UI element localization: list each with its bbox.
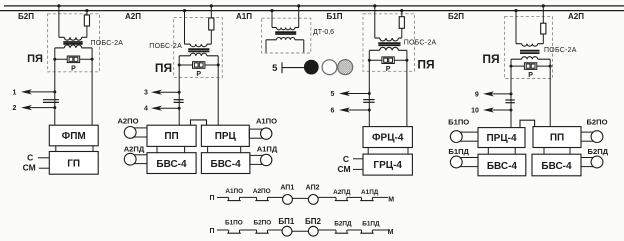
contact А2ПД (335, 197, 349, 200)
svg-text:М: М (388, 229, 394, 236)
wire stub ПРЦ-4-БВС left (487, 148, 489, 155)
block БВС-4 (under ПП) (147, 153, 196, 174)
svg-text:Р: Р (386, 66, 391, 73)
junction (group 5 P row right) (549, 65, 552, 68)
relay Р (group 2) connection wire (179, 64, 218, 66)
wire row Б seg 4 (292, 230, 309, 232)
transformer ПОБС-2А (group 2) primary winding (185, 43, 191, 45)
junction (group 5 P row left) (510, 65, 513, 68)
svg-text:С: С (27, 152, 33, 162)
svg-text:6: 6 (331, 107, 335, 114)
svg-text:АП2: АП2 (306, 184, 320, 191)
svg-text:ПРЦ: ПРЦ (215, 131, 237, 142)
terminal Б2ПО (581, 132, 597, 141)
wire arrow 5 tap (331, 91, 371, 98)
wire stub ПП-БВС right (184, 146, 186, 152)
svg-text:ПОБС-2А: ПОБС-2А (544, 47, 577, 54)
svg-text:Б2ПО: Б2ПО (586, 117, 607, 126)
svg-text:5: 5 (272, 63, 278, 74)
contact Б2ПО (255, 230, 268, 233)
block БВС-4 (under ПРЦ) (201, 153, 250, 174)
block БВС-4 (under ПРЦ-4) (478, 154, 526, 176)
junction on rail (group 5 resistor tap) (542, 4, 545, 7)
contact Б1ПО (227, 230, 241, 233)
junction (group 2 P row right) (217, 64, 220, 67)
svg-text:М: М (388, 197, 394, 204)
block ПРЦ (201, 125, 249, 146)
dashed enclosure ДТ box (262, 18, 311, 53)
svg-text:ПРЦ-4: ПРЦ-4 (486, 133, 516, 144)
wire stub ФПМ-ГП right (92, 146, 94, 152)
block ГП (49, 152, 98, 175)
svg-text:А2ПО: А2ПО (117, 116, 138, 125)
wire row А seg 2 (240, 196, 257, 198)
wire row А seg 1 (217, 196, 229, 198)
svg-text:Р: Р (528, 72, 533, 79)
svg-text:Б1ПО: Б1ПО (448, 117, 469, 126)
transformer ПОБС-2А (group 1) secondary winding (55, 47, 65, 49)
wire stub ПРЦ-БВС right (240, 146, 242, 152)
wire stub ФПМ-ГП left (55, 146, 57, 152)
resistor R2 (210, 6, 212, 18)
transformer ПОБС-2А (group 4) secondary winding (369, 49, 379, 51)
wire stub ПРЦ-4-БВС right (514, 148, 516, 155)
terminal А1ПО (249, 129, 266, 138)
relay Р (group 5) connection wire (511, 65, 550, 67)
junction on rail (group 1 left tap) (57, 4, 60, 7)
transformer ПОБС-2А (group 1) core (63, 41, 82, 43)
wire secondary left vertical (group 2) (178, 56, 180, 125)
wire arrow 10 tap (471, 107, 512, 114)
svg-text:5: 5 (331, 91, 335, 98)
wire row Б seg 1 (217, 229, 229, 231)
junction on rail (group 4 resistor tap) (400, 9, 403, 12)
signal mast (281, 62, 283, 73)
contact А1ПО (227, 197, 241, 200)
svg-text:А2П: А2П (125, 12, 141, 21)
relay coil АП1 (283, 195, 293, 205)
transformer ПОБС-2А (group 4) core (378, 42, 400, 44)
junction (group 4 P row right) (405, 59, 408, 62)
wire ДТ secondary left stub (265, 40, 267, 53)
wire row А seg 3 (268, 196, 284, 198)
svg-text:П: П (209, 195, 214, 202)
transformer ПОБС-2А (group 2) secondary winding (179, 55, 190, 57)
block ФРЦ-4 (363, 127, 412, 148)
wire rail tap left (group 2) (184, 11, 186, 45)
dashed enclosure ПЯ box (group 5) (505, 17, 553, 79)
transformer ДТ-0,6 main winding (272, 27, 277, 29)
dashed enclosure ПЯ box (group 2) (174, 18, 223, 78)
svg-text:А2П: А2П (568, 12, 584, 21)
wire secondary left vertical (group 1) (54, 48, 56, 126)
svg-text:Б2П: Б2П (448, 12, 464, 21)
capacitor on wire (group 5) (505, 100, 514, 103)
svg-text:БВС-4: БВС-4 (156, 159, 187, 170)
svg-text:АП1: АП1 (280, 184, 294, 191)
svg-text:Б1ПД: Б1ПД (362, 220, 380, 227)
wire row А seg 6 (347, 196, 362, 198)
svg-text:А2ПО: А2ПО (253, 188, 271, 195)
block ГРЦ-4 (363, 154, 412, 175)
contact А2ПО (255, 197, 268, 200)
relay coil БП2 (308, 226, 318, 236)
wire stub ПП-БВС left (156, 146, 158, 152)
svg-text:А1ПО: А1ПО (256, 116, 277, 125)
svg-text:10: 10 (471, 107, 479, 114)
capacitor on wire (group 2) (174, 100, 184, 103)
wire ДТ left tap (271, 11, 273, 28)
wire secondary right vertical (group 2) (217, 56, 219, 125)
transformer ПОБС-2А (group 1) primary winding (59, 36, 64, 38)
svg-text:А2ПД: А2ПД (124, 144, 145, 153)
resistor R4 (401, 11, 403, 17)
relay Р (group 4) connection wire (369, 59, 407, 61)
svg-text:ПОБС-2А: ПОБС-2А (91, 40, 124, 47)
wire arrow 4 tap (144, 106, 181, 113)
junction on rail (group 2 left tap) (183, 9, 186, 12)
wire row Б seg 3 (268, 229, 284, 231)
relay Р (group 1) plug block (67, 56, 79, 63)
svg-text:Р: Р (71, 65, 76, 72)
svg-text:БВС-4: БВС-4 (541, 161, 572, 172)
svg-text:БВС-4: БВС-4 (211, 159, 242, 170)
junction (group 2 P row left) (178, 64, 181, 67)
svg-text:Б2ПД: Б2ПД (588, 147, 609, 156)
svg-text:ПЯ: ПЯ (27, 53, 43, 65)
svg-text:Б1ПД: Б1ПД (448, 147, 469, 156)
wire secondary right vertical (group 1) (91, 48, 93, 126)
svg-text:А1ПО: А1ПО (225, 188, 243, 195)
relay coil АП2 (308, 195, 318, 205)
wire arrow 9 tap (475, 91, 513, 98)
junction (group 1 P row left) (53, 58, 56, 61)
svg-text:9: 9 (475, 91, 479, 98)
svg-text:3: 3 (144, 90, 148, 97)
block БВС-4 (under ПП right) (532, 154, 581, 176)
block ПП (right) (533, 127, 581, 148)
relay Р (group 4) plug block (382, 57, 394, 64)
junction on rail (group 5 left tap) (514, 9, 517, 12)
svg-text:ФПМ: ФПМ (62, 131, 86, 142)
wire rail tap left (group 1) (58, 6, 60, 37)
relay Р (group 1) connection wire (55, 58, 92, 60)
wire rail tap left (group 4) (374, 6, 376, 38)
junction on rail (group 1 resistor tap) (85, 9, 88, 12)
resistor R5 (542, 6, 544, 23)
svg-text:П: П (209, 228, 214, 235)
wire arrow 2 tap (13, 105, 57, 112)
wire row А seg 4 (292, 197, 308, 199)
block ПП (left) (147, 125, 196, 146)
junction (group 1 P row right) (91, 58, 94, 61)
signal mast arm (282, 67, 304, 69)
capacitor on wire (group 4) (363, 100, 374, 103)
svg-text:БП1: БП1 (278, 217, 295, 226)
svg-text:ПЯ: ПЯ (482, 52, 499, 66)
wire bridge ПРЦ-4-ПП (520, 120, 535, 127)
svg-text:А2ПД: А2ПД (333, 189, 351, 196)
wire arrow 3 tap (144, 90, 181, 97)
svg-text:Б2П: Б2П (18, 12, 34, 21)
wire row Б seg 2 (240, 229, 257, 231)
transformer ПОБС-2А (group 2) core (188, 48, 209, 50)
transformer ПОБС-2А (group 5) secondary winding (511, 58, 522, 60)
wire С to ГП (38, 157, 50, 159)
wire row Б seg 6 (347, 229, 362, 231)
contact А1ПД (360, 197, 374, 200)
svg-text:Б2ПД: Б2ПД (334, 220, 352, 227)
svg-text:ДТ-0,6: ДТ-0,6 (313, 29, 334, 36)
wire row Б seg 7 (372, 229, 388, 231)
svg-text:1: 1 (13, 89, 17, 96)
wire rail tap left (group 5) (515, 11, 517, 44)
transformer ПОБС-2А (group 5) core (520, 50, 540, 52)
terminal Б1ПД (456, 158, 478, 167)
junction (group 4 P row left) (368, 59, 371, 62)
wire arrow 6 tap (331, 107, 371, 114)
wire stub ПП-БВС right (569, 148, 571, 155)
transformer ДТ-0,6 secondary winding (266, 39, 277, 41)
wire secondary left vertical (group 4) (368, 50, 370, 126)
wire row А seg 7 (372, 196, 388, 198)
dashed enclosure ПЯ box (group 4) (363, 14, 415, 72)
svg-text:СМ: СМ (23, 163, 36, 173)
wire stub ПП-БВС left (543, 148, 545, 155)
svg-text:ГП: ГП (67, 158, 80, 169)
capacitor on wire (group 1) (43, 100, 59, 103)
svg-text:ПОБС-2А: ПОБС-2А (404, 40, 437, 47)
wire bridge ПП-ПРЦ (191, 120, 207, 125)
wire secondary right vertical (group 5) (549, 59, 551, 127)
wire СМ to ГП (39, 167, 50, 169)
transformer ДТ-0,6 core (275, 31, 296, 33)
svg-text:ПП: ПП (164, 131, 178, 142)
svg-text:БВС-4: БВС-4 (487, 161, 518, 172)
contact Б2ПД (335, 230, 349, 233)
wire СМ to ГРЦ-4 (353, 168, 363, 170)
svg-text:Б1ПО: Б1ПО (225, 220, 243, 227)
svg-text:Б1П: Б1П (327, 12, 343, 21)
svg-text:ГРЦ-4: ГРЦ-4 (373, 160, 402, 171)
svg-text:А1ПД: А1ПД (257, 144, 278, 153)
wire ДТ secondary right stub (303, 40, 305, 53)
relay coil БП1 (282, 226, 292, 236)
svg-text:ПОБС-2А: ПОБС-2А (149, 43, 182, 50)
terminal Б1ПО (456, 132, 478, 141)
block ПРЦ-4 (478, 128, 525, 148)
wire stub ПРЦ-БВС left (207, 146, 209, 152)
transformer ПОБС-2А (group 4) primary winding (375, 37, 380, 39)
svg-text:Б2ПО: Б2ПО (254, 220, 272, 227)
wire ДТ right tap (298, 6, 300, 28)
junction on rail (group 2 resistor tap) (210, 4, 213, 7)
contact Б1ПД (360, 230, 374, 233)
terminal А2ПД (130, 155, 147, 164)
terminal А2ПО (130, 128, 147, 137)
svg-text:ПЯ: ПЯ (155, 61, 172, 75)
terminal Б2ПД (581, 158, 597, 167)
svg-text:4: 4 (144, 106, 148, 113)
resistor R1 (86, 11, 88, 15)
svg-text:Р: Р (196, 71, 201, 78)
svg-text:СМ: СМ (337, 164, 350, 174)
signal lamp black (304, 60, 319, 75)
wire secondary left vertical (group 5) (510, 59, 512, 127)
svg-text:А1П: А1П (236, 12, 252, 21)
wire secondary right vertical (group 4) (406, 50, 408, 126)
wire stub ФРЦ-ГРЦ right (407, 148, 409, 155)
svg-text:С: С (343, 154, 349, 164)
transformer ПОБС-2А (group 5) primary winding (516, 43, 522, 45)
rail line 1 (upper rail) (4, 5, 624, 7)
wire arrow 1 tap (13, 89, 57, 96)
svg-text:БП2: БП2 (305, 217, 322, 226)
wire stub ФРЦ-ГРЦ left (367, 148, 369, 155)
junction on rail (group 4 left tap) (373, 4, 376, 7)
dashed enclosure ПЯ box (group 1) (48, 14, 100, 72)
wire С to ГРЦ-4 (353, 158, 363, 160)
rail line 2 (lower rail) (0, 10, 624, 12)
svg-text:А1ПД: А1ПД (361, 189, 379, 196)
relay Р (group 5) plug block (524, 63, 536, 70)
svg-text:ПЯ: ПЯ (417, 58, 434, 72)
block ФПМ (49, 125, 98, 146)
svg-text:2: 2 (13, 105, 17, 112)
relay Р (group 2) plug block (193, 62, 205, 69)
svg-text:ФРЦ-4: ФРЦ-4 (372, 133, 404, 144)
wire row А seg 5 (318, 196, 336, 198)
signal lamp white (322, 60, 337, 75)
svg-text:ПП: ПП (550, 133, 564, 144)
terminal А1ПД (250, 155, 266, 164)
wire row Б seg 5 (318, 229, 336, 231)
